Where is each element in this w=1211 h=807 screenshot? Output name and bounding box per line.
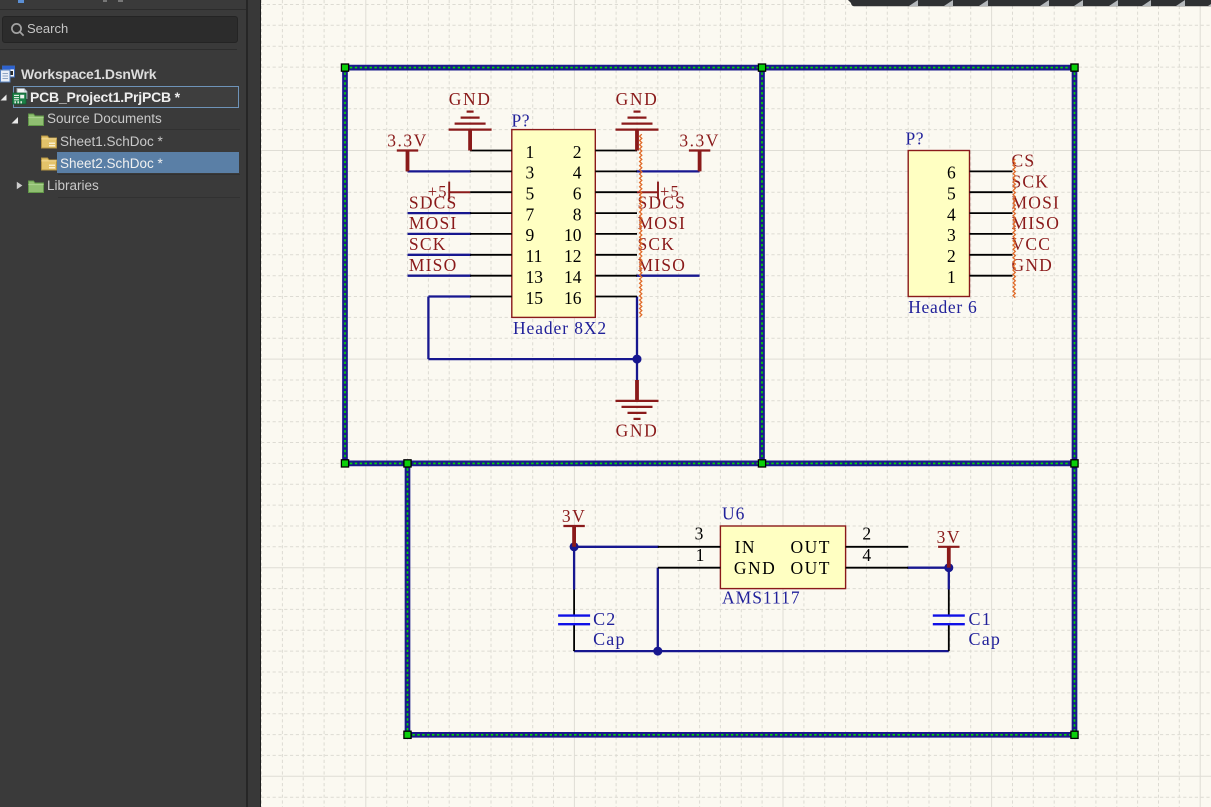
svg-text:SDCS: SDCS (638, 192, 687, 212)
net label MISO (header 6) (1012, 213, 1061, 233)
wire C2 top lead net (573, 547, 575, 590)
svg-text:MISO: MISO (409, 255, 458, 275)
svg-text:15: 15 (526, 288, 544, 308)
P? Header8X2 pin 6 (573, 184, 637, 204)
P? Header8X2 pin 8 (573, 204, 637, 224)
svg-text:GND: GND (449, 89, 492, 109)
U6 pin 3 IN (658, 523, 756, 557)
U6 pin 2 OUT (791, 523, 909, 557)
P? Header8X2 pin 15 (470, 288, 543, 308)
svg-text:Header 8X2: Header 8X2 (513, 318, 607, 338)
net label MOSI (header 6) (1012, 192, 1061, 212)
svg-text:5: 5 (947, 184, 956, 204)
power port 3V right (937, 527, 961, 568)
P? Header8X2 pin 12 (564, 246, 637, 266)
connector P? Header 6 body (908, 151, 969, 297)
P? Header8X2 pin 13 (470, 267, 543, 287)
P? Header6 pin 3 (947, 225, 1012, 245)
docked panel tab strip (top right) (848, 0, 1211, 6)
P? Header8X2 pin 11 (470, 246, 542, 266)
P? Header8X2 pin 5 (470, 184, 534, 204)
selected line: horizontal edge y=463 (345, 461, 1075, 467)
C2 designator (593, 609, 616, 629)
source documents row (0, 109, 246, 130)
svg-text:3V: 3V (562, 506, 586, 526)
regulator U6 AMS1117 body (720, 526, 845, 589)
comment AMS1117 (722, 587, 801, 607)
connector P? Header 8X2 body (512, 130, 596, 318)
svg-text:OUT: OUT (791, 558, 831, 578)
svg-text:3.3V: 3.3V (387, 131, 428, 151)
svg-text:AMS1117: AMS1117 (722, 587, 801, 607)
svg-text:SCK: SCK (1012, 171, 1050, 191)
svg-text:7: 7 (526, 204, 535, 224)
net label GND (header 6) (1012, 255, 1054, 275)
junction OUT net right (944, 563, 953, 572)
net label MISO right (638, 255, 687, 275)
svg-text:3.3V: 3.3V (679, 131, 720, 151)
wire net 3.3V left (row 3) (408, 170, 472, 172)
svg-text:5: 5 (526, 184, 535, 204)
designator P? (Header 8X2) (512, 111, 531, 131)
svg-text:MOSI: MOSI (409, 213, 458, 233)
svg-text:12: 12 (564, 246, 582, 266)
svg-text:2: 2 (947, 246, 956, 266)
C1 value Cap (969, 629, 1002, 649)
net label CS (header 6) (1012, 151, 1036, 171)
svg-text:10: 10 (564, 225, 582, 245)
C1 designator (969, 609, 992, 629)
P? Header8X2 pin 2 (573, 142, 637, 162)
svg-text:GND: GND (734, 558, 776, 578)
svg-text:MOSI: MOSI (1012, 192, 1061, 212)
svg-text:14: 14 (564, 267, 582, 287)
wire C1 top lead net (948, 568, 950, 590)
svg-text:1: 1 (947, 267, 956, 287)
net label SCK left (409, 234, 447, 254)
svg-text:MISO: MISO (1012, 213, 1061, 233)
svg-text:2: 2 (573, 142, 582, 162)
selection handles (341, 64, 1078, 738)
net label SDCS left (409, 192, 458, 212)
svg-text:3: 3 (526, 163, 535, 183)
svg-text:U6: U6 (722, 503, 745, 523)
net label MOSI left (409, 213, 458, 233)
selected line: left edge rect C (405, 463, 411, 734)
power port +5 left (428, 182, 470, 202)
P? Header8X2 pin 4 (573, 163, 637, 183)
net label MISO left (409, 255, 458, 275)
wire from pin 16 down to GND bus (636, 297, 638, 381)
svg-text:6: 6 (947, 163, 956, 183)
svg-text:VCC: VCC (1012, 234, 1052, 254)
wire U6 GND pin down (657, 568, 659, 651)
svg-text:8: 8 (573, 204, 582, 224)
power port GND (top middle) (616, 89, 659, 150)
svg-text:MISO: MISO (638, 255, 687, 275)
svg-text:16: 16 (564, 288, 582, 308)
power port 3V left (562, 506, 586, 547)
wire 3.3V right (row 4) (636, 170, 700, 172)
svg-text:11: 11 (526, 246, 543, 266)
P? Header8X2 pin 3 (470, 163, 534, 183)
P? Header8X2 pin 10 (564, 225, 637, 245)
comment Header 6 (908, 297, 977, 317)
wire ground bus (bottom) (574, 650, 949, 652)
wire SCK left (row 11) (408, 254, 472, 256)
svg-text:3: 3 (947, 225, 956, 245)
workspace row (0, 64, 246, 85)
svg-text:2: 2 (862, 523, 871, 543)
wire C2 bottom stub (573, 650, 575, 651)
power port 3.3V left (387, 131, 428, 172)
C2 value Cap (593, 629, 626, 649)
capacitor C2 (558, 590, 590, 652)
svg-text:Header 6: Header 6 (908, 297, 977, 317)
svg-text:6: 6 (573, 184, 582, 204)
U6 pin 4 OUT (791, 545, 909, 578)
net label SDCS right (638, 192, 687, 212)
wire OUT net to 3V right (907, 567, 949, 569)
selected line: top border rect A+B (345, 65, 1075, 71)
project row (selected with border) (13, 86, 240, 107)
selected line: middle vertical edge between rect A and B (759, 68, 765, 464)
net label SCK right (638, 234, 676, 254)
junction ground bus (653, 647, 662, 656)
svg-text:3V: 3V (937, 527, 961, 547)
svg-text:13: 13 (526, 267, 544, 287)
svg-text:P?: P? (906, 129, 925, 149)
designator U6 (722, 503, 745, 523)
search box (2, 16, 238, 43)
svg-text:4: 4 (947, 204, 956, 224)
svg-text:GND: GND (616, 420, 659, 440)
selected line: right edge rect B and C (1072, 68, 1078, 735)
P? Header6 pin 2 (947, 246, 1012, 266)
svg-text:Cap: Cap (969, 629, 1002, 649)
power port 3.3V right (679, 131, 720, 172)
wire MOSI left (row 9) (408, 233, 472, 235)
P? Header8X2 pin 7 (470, 204, 534, 224)
selected line: bottom edge rect C (408, 732, 1075, 738)
wire from pin 15 down to GND bus (428, 297, 637, 360)
ERC marker zigzag (header 6) (1013, 159, 1015, 298)
P? Header8X2 pin 1 (470, 142, 534, 162)
svg-text:4: 4 (862, 545, 871, 565)
P? Header6 pin 1 (947, 267, 1012, 287)
wire 3V input net (left) (574, 546, 659, 548)
svg-text:GND: GND (616, 89, 659, 109)
wire MISO left (row 13) (408, 275, 472, 277)
svg-text:OUT: OUT (791, 537, 831, 557)
svg-text:SCK: SCK (638, 234, 676, 254)
P? Header6 pin 6 (947, 163, 1012, 183)
svg-text:Cap: Cap (593, 629, 626, 649)
libraries row (0, 176, 246, 197)
svg-text:4: 4 (573, 163, 582, 183)
power port GND (top left) (449, 89, 492, 150)
svg-text:9: 9 (526, 225, 535, 245)
comment Header 8X2 (513, 318, 607, 338)
power port +5 right (637, 182, 680, 202)
capacitor C1 (933, 590, 965, 652)
power port GND (bottom, below header) (616, 380, 659, 440)
wire SDCS left (row 7) (408, 212, 472, 214)
svg-text:MOSI: MOSI (638, 213, 687, 233)
junction GND bus (633, 355, 642, 364)
junction 3V left (570, 542, 579, 551)
P? Header8X2 pin 14 (564, 267, 637, 287)
svg-text:SDCS: SDCS (409, 192, 458, 212)
svg-text:C1: C1 (969, 609, 992, 629)
ERC marker zigzag (header 8x2) (640, 134, 642, 317)
selected line: left edge rect A (342, 68, 348, 464)
svg-text:C2: C2 (593, 609, 616, 629)
net label VCC (header 6) (1012, 234, 1052, 254)
net label MOSI right (638, 213, 687, 233)
svg-text:1: 1 (526, 142, 535, 162)
P? Header6 pin 4 (947, 204, 1012, 224)
P? Header8X2 pin 9 (470, 225, 534, 245)
sheet1 row (0, 132, 246, 153)
svg-text:P?: P? (512, 111, 531, 131)
P? Header8X2 pin 16 (564, 288, 637, 308)
svg-text:IN: IN (735, 537, 756, 557)
designator P? (Header 6) (906, 129, 925, 149)
svg-text:3: 3 (695, 523, 704, 543)
sheet2 row selected (57, 152, 239, 173)
panel header cut-off marks (18, 0, 24, 3)
U6 pin 1 GND (658, 545, 777, 578)
net label SCK (header 6) (1012, 171, 1050, 191)
svg-text:SCK: SCK (409, 234, 447, 254)
svg-text:GND: GND (1012, 255, 1054, 275)
svg-text:1: 1 (696, 545, 705, 565)
wire MISO right (row 14) (636, 275, 700, 277)
P? Header6 pin 5 (947, 184, 1012, 204)
